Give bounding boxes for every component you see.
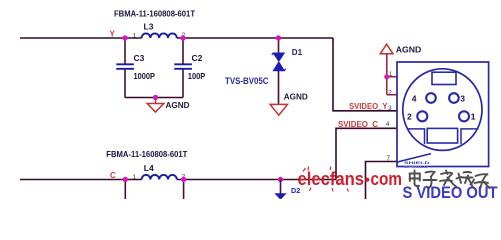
- ground AGND (caps): [147, 98, 189, 113]
- svg-text:FBMA-11-160808-601T: FBMA-11-160808-601T: [106, 149, 188, 159]
- connector J? box: [397, 62, 489, 167]
- connector bottom key: [427, 128, 457, 143]
- pin hole 3: [449, 93, 459, 103]
- svg-text:L3: L3: [144, 22, 154, 32]
- svg-text:SVIDEO_C: SVIDEO_C: [338, 120, 378, 129]
- capacitor C3 plates: [116, 64, 134, 69]
- watermark elecfans.com: [298, 167, 403, 192]
- svg-text:100P: 100P: [188, 71, 206, 81]
- pin hole 1: [459, 111, 469, 121]
- watermark chinese 电子发烧友: [410, 171, 490, 189]
- pin hole 2: [417, 111, 427, 121]
- svg-text:SHIELD: SHIELD: [404, 165, 430, 169]
- svg-text:elecfans: elecfans: [298, 169, 365, 189]
- wire SVIDEO_Y vertical+horizontal to pin 3: [333, 38, 397, 111]
- svg-text:C2: C2: [192, 53, 203, 63]
- svg-text:1: 1: [133, 33, 137, 40]
- connector shell circle: [403, 69, 482, 151]
- svg-text:2: 2: [407, 112, 412, 122]
- inductor L4: [142, 175, 177, 180]
- wire C main horizontal (bottom): [20, 179, 336, 181]
- wire pin 7 shield: [366, 162, 398, 200]
- node dot D2 junction: [278, 177, 283, 182]
- svg-text:1000P: 1000P: [134, 71, 156, 81]
- wire C2 branch: [182, 38, 184, 98]
- svg-text:4: 4: [412, 93, 417, 103]
- wire Y main horizontal: [20, 37, 333, 39]
- diode D2 TVS (cut off): [276, 194, 286, 199]
- svg-text:com: com: [371, 169, 403, 189]
- svg-text:D1: D1: [292, 48, 303, 57]
- svg-text:3: 3: [388, 105, 392, 112]
- svg-text:L4: L4: [144, 163, 154, 173]
- connector right wing: [461, 129, 479, 144]
- wire cap bottom rail: [125, 97, 183, 99]
- svg-text:1: 1: [133, 174, 137, 181]
- node dot L4 pin1: [123, 177, 128, 182]
- wire SVIDEO_C: [336, 128, 397, 179]
- node dot L3 pin2: [180, 35, 185, 40]
- svg-text:FBMA-11-160808-601T: FBMA-11-160808-601T: [114, 9, 196, 19]
- wire D2 branch: [280, 180, 282, 194]
- node dot L3 pin1: [122, 35, 127, 40]
- inductor L3: [142, 33, 177, 38]
- capacitor C2 plates: [174, 64, 192, 69]
- wire AGND to pins 1,2: [387, 54, 397, 95]
- diode D1 TVS: [272, 53, 286, 71]
- svg-text:TVS-BV05C: TVS-BV05C: [225, 76, 269, 86]
- svg-text:SVIDEO_Y: SVIDEO_Y: [349, 102, 388, 111]
- svg-text:1: 1: [389, 71, 393, 78]
- svg-text:Y: Y: [110, 30, 116, 39]
- power AGND (connector): [380, 44, 421, 95]
- pin hole 4: [426, 93, 436, 103]
- svg-text:2: 2: [388, 89, 392, 96]
- svg-text:7: 7: [386, 155, 390, 162]
- node dot L4 pin2: [181, 177, 186, 182]
- wire D1 branch: [278, 38, 280, 104]
- wire C3 branch: [124, 38, 126, 98]
- connector left wing: [407, 129, 425, 144]
- node dot cap rail: [153, 95, 158, 100]
- ground AGND (D1): [270, 93, 308, 116]
- node junction pin1: [384, 74, 389, 79]
- node dot D1 junction: [276, 35, 281, 40]
- svg-text:4: 4: [386, 121, 390, 128]
- svg-text:AGND: AGND: [396, 44, 422, 54]
- svg-text:C: C: [110, 171, 116, 180]
- svg-text:C3: C3: [134, 53, 145, 63]
- shield diagonal: [397, 154, 431, 162]
- svg-text:3: 3: [460, 93, 465, 103]
- wire cap branch bottom-right: [183, 180, 185, 200]
- wire cap branch bottom-left: [124, 180, 126, 200]
- svg-text:AGND: AGND: [284, 93, 308, 102]
- connector top notch: [432, 72, 456, 84]
- svg-text:1: 1: [471, 112, 476, 122]
- svg-text:AGND: AGND: [166, 101, 190, 110]
